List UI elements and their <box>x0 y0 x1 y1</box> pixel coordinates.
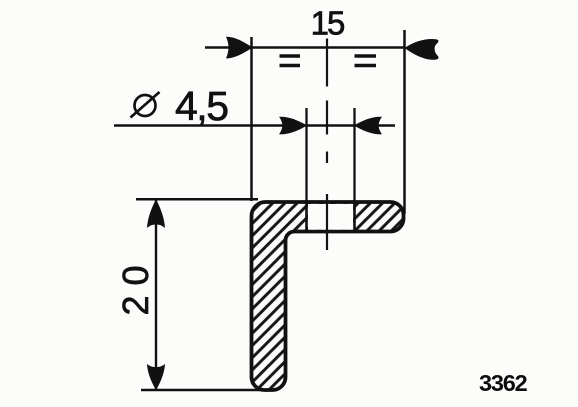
hole in flange (unhatched) <box>308 204 353 230</box>
diameter symbol <box>131 92 160 118</box>
extension line top of 20 <box>136 198 258 201</box>
extension line bottom of 20 <box>141 389 263 392</box>
svg-text:3362: 3362 <box>479 370 528 396</box>
arrowhead right of 15 <box>405 39 439 60</box>
extension line right of 15 <box>403 30 406 214</box>
hole extension line right <box>353 108 355 201</box>
svg-text:15: 15 <box>311 5 344 42</box>
svg-text:4,5: 4,5 <box>175 83 228 129</box>
arrowhead hole dim right <box>354 117 382 135</box>
arrowhead left of 15 <box>226 37 253 59</box>
dimension line 15 <box>205 46 405 49</box>
hole extension line left <box>305 108 307 201</box>
arrowhead hole dim left <box>279 117 307 135</box>
symmetry mark right (=) <box>355 56 377 66</box>
svg-text:20: 20 <box>115 255 156 315</box>
symmetry mark left (=) <box>280 56 301 66</box>
L-section body with hatching <box>252 202 404 390</box>
arrowhead 20 bottom <box>147 364 165 390</box>
leader / dimension line for hole <box>114 124 395 126</box>
hole edge left <box>305 202 308 231</box>
extension line left of 15 <box>250 37 253 201</box>
dimension line 20 <box>155 200 157 390</box>
hole edge right <box>353 202 356 231</box>
centerline (dash-dot) <box>326 39 328 251</box>
arrowhead 20 top <box>147 200 165 229</box>
